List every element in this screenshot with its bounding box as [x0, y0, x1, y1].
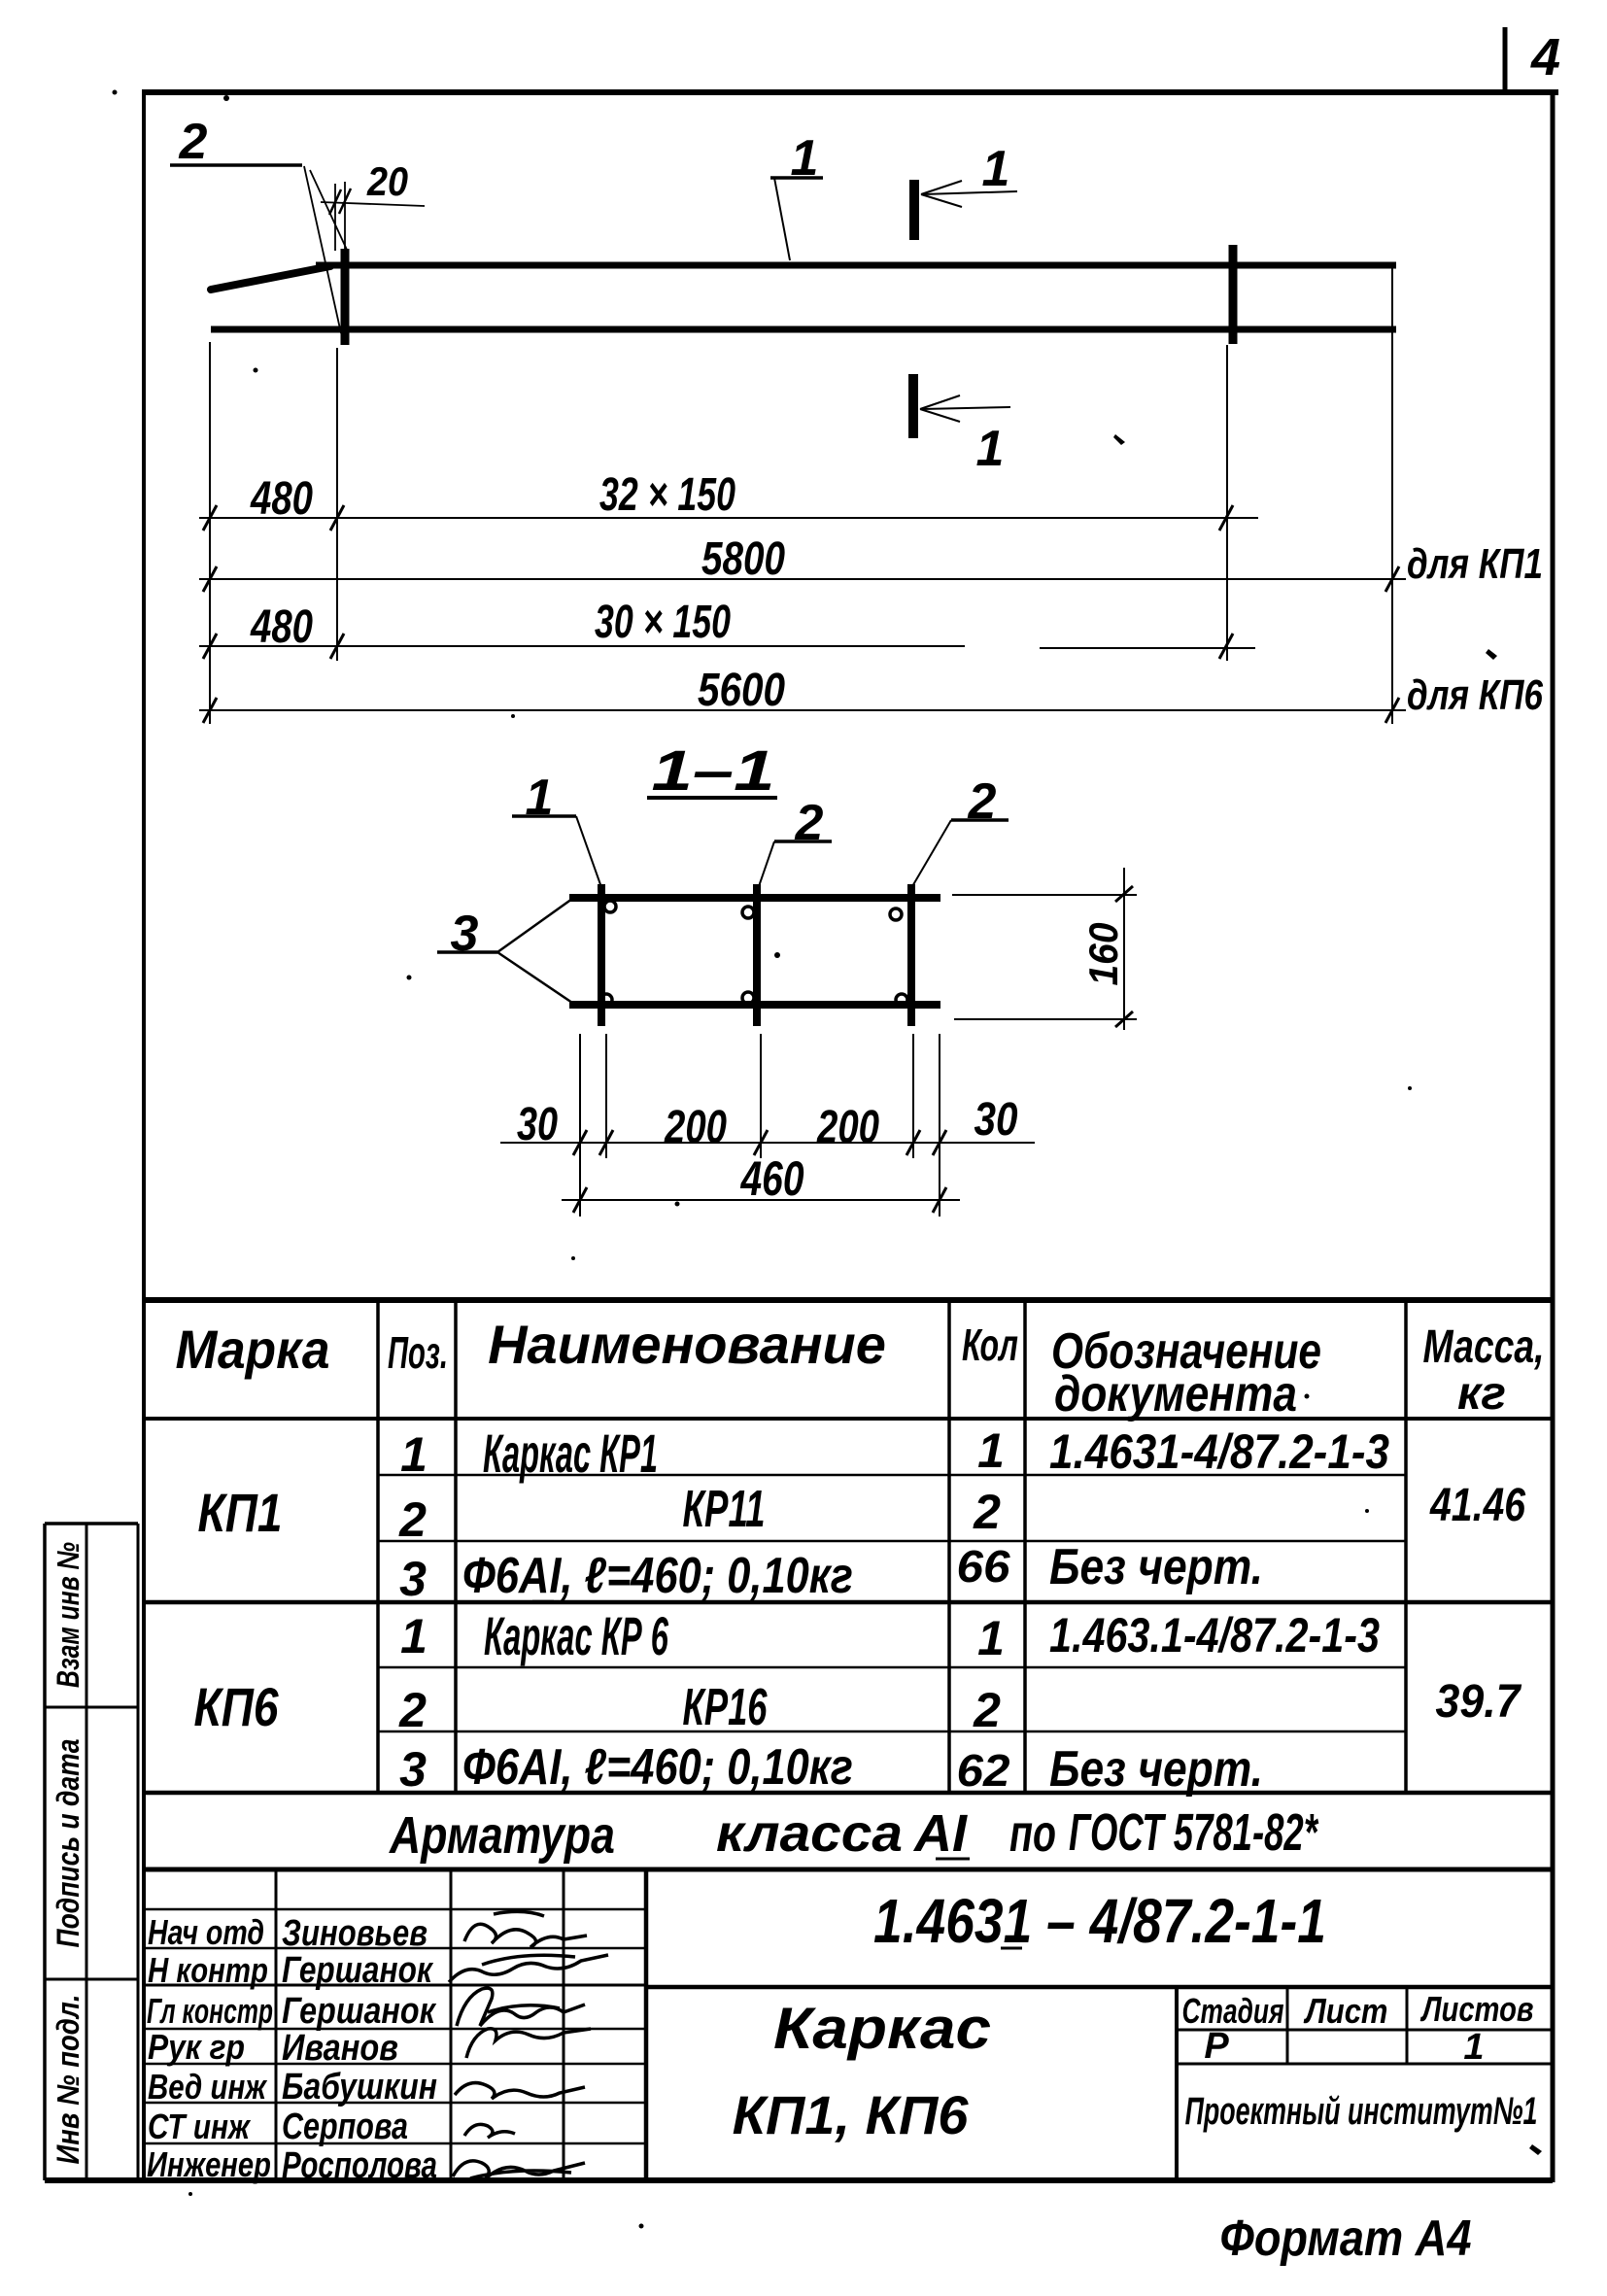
svg-text:Каркас: Каркас: [773, 1997, 991, 2062]
svg-text:3: 3: [399, 1552, 427, 1606]
svg-text:Гершанок: Гершанок: [282, 1991, 437, 2032]
svg-text:Гл констр: Гл констр: [147, 1991, 273, 2031]
svg-text:5800: 5800: [701, 533, 785, 585]
svg-text:1: 1: [400, 1609, 427, 1663]
svg-text:Ф6АI, ℓ=460; 0,10кг: Ф6АI, ℓ=460; 0,10кг: [462, 1548, 853, 1604]
svg-text:5600: 5600: [698, 665, 785, 716]
svg-text:1: 1: [400, 1427, 427, 1482]
svg-text:Ф6АI, ℓ=460; 0,10кг: Ф6АI, ℓ=460; 0,10кг: [462, 1739, 853, 1796]
svg-text:Зиновьев: Зиновьев: [282, 1913, 427, 1954]
svg-text:Инв № подл.: Инв № подл.: [51, 1995, 85, 2165]
svg-text:Взам инв №: Взам инв №: [51, 1542, 86, 1688]
svg-text:СТ инж: СТ инж: [148, 2108, 251, 2146]
svg-text:Листов: Листов: [1420, 1989, 1534, 2029]
svg-text:30: 30: [517, 1099, 558, 1150]
svg-text:Гершанок: Гершанок: [282, 1949, 434, 1990]
svg-text:1: 1: [977, 1423, 1005, 1478]
svg-text:для КП1: для КП1: [1407, 540, 1543, 588]
svg-text:КР16: КР16: [683, 1677, 768, 1736]
svg-text:1: 1: [976, 421, 1005, 477]
svg-text:1: 1: [982, 141, 1010, 197]
svg-text:2: 2: [398, 1683, 427, 1737]
svg-text:200: 200: [816, 1102, 879, 1153]
svg-text:Поз.: Поз.: [388, 1328, 448, 1378]
svg-text:480: 480: [250, 473, 313, 525]
svg-text:2: 2: [179, 114, 208, 170]
svg-text:АI: АI: [912, 1804, 968, 1863]
svg-text:Нач отд: Нач отд: [148, 1913, 264, 1952]
svg-text:Инженер: Инженер: [147, 2144, 271, 2184]
svg-text:30: 30: [974, 1094, 1018, 1146]
svg-text:1.4631-4/87.2-1-3: 1.4631-4/87.2-1-3: [1049, 1423, 1389, 1478]
svg-text:480: 480: [250, 601, 313, 653]
svg-text:Н контр: Н контр: [148, 1950, 268, 1990]
svg-text:для КП6: для КП6: [1407, 671, 1544, 719]
svg-text:39.7: 39.7: [1436, 1675, 1522, 1728]
svg-text:1–1: 1–1: [652, 740, 775, 803]
svg-text:ГОСТ 5781-82*: ГОСТ 5781-82*: [1069, 1802, 1319, 1862]
svg-text:2: 2: [398, 1492, 427, 1547]
svg-text:Подпись и дата: Подпись и дата: [51, 1739, 86, 1948]
svg-text:кг: кг: [1457, 1368, 1506, 1420]
svg-text:Масса,: Масса,: [1423, 1321, 1545, 1374]
svg-text:Иванов: Иванов: [282, 2028, 398, 2069]
svg-text:Проектный институт№1: Проектный институт№1: [1185, 2090, 1538, 2134]
svg-text:Марка: Марка: [176, 1319, 330, 1380]
svg-text:62: 62: [956, 1747, 1009, 1797]
svg-text:4: 4: [1530, 28, 1560, 86]
svg-text:Вед инж: Вед инж: [148, 2067, 268, 2106]
svg-text:Рук гр: Рук гр: [148, 2028, 245, 2067]
svg-text:Р: Р: [1204, 2026, 1229, 2067]
svg-text:41.46: 41.46: [1429, 1479, 1525, 1531]
svg-text:32 × 150: 32 × 150: [599, 468, 735, 520]
svg-text:Серпова: Серпова: [282, 2107, 408, 2147]
svg-text:класса: класса: [716, 1803, 903, 1862]
svg-text:1.463.1-4/87.2-1-3: 1.463.1-4/87.2-1-3: [1049, 1607, 1380, 1662]
svg-text:Формат А4: Формат А4: [1220, 2210, 1472, 2267]
svg-text:Каркас КР1: Каркас КР1: [483, 1423, 658, 1484]
svg-text:2: 2: [973, 1683, 1001, 1737]
svg-text:КП6: КП6: [194, 1677, 279, 1737]
svg-text:Кол: Кол: [962, 1320, 1018, 1370]
svg-text:Росполова: Росполова: [282, 2145, 437, 2186]
svg-text:20: 20: [366, 159, 408, 204]
svg-text:Лист: Лист: [1303, 1993, 1388, 2032]
svg-text:Арматура: Арматура: [388, 1806, 615, 1865]
svg-text:Стадия: Стадия: [1182, 1991, 1284, 2031]
svg-text:Без черт.: Без черт.: [1049, 1539, 1263, 1595]
svg-text:Бабушкин: Бабушкин: [282, 2066, 437, 2107]
svg-text:КР11: КР11: [683, 1479, 766, 1538]
svg-text:по: по: [1009, 1804, 1056, 1864]
svg-text:460: 460: [740, 1151, 804, 1206]
svg-text:Наименование: Наименование: [488, 1314, 886, 1375]
svg-text:КП1, КП6: КП1, КП6: [733, 2084, 970, 2145]
svg-text:КП1: КП1: [198, 1483, 283, 1543]
svg-text:1.4631 – 4/87.2-1-1: 1.4631 – 4/87.2-1-1: [873, 1888, 1326, 1957]
svg-text:30 × 150: 30 × 150: [595, 596, 731, 647]
svg-text:Каркас КР 6: Каркас КР 6: [484, 1605, 668, 1666]
svg-text:160: 160: [1080, 922, 1127, 985]
svg-text:документа: документа: [1054, 1366, 1297, 1422]
svg-text:66: 66: [956, 1543, 1009, 1593]
svg-text:2: 2: [973, 1485, 1001, 1539]
svg-text:1: 1: [1463, 2027, 1484, 2068]
svg-text:3: 3: [399, 1742, 427, 1797]
svg-text:Без черт.: Без черт.: [1049, 1741, 1263, 1798]
svg-text:200: 200: [664, 1102, 727, 1153]
svg-text:1: 1: [977, 1611, 1005, 1665]
